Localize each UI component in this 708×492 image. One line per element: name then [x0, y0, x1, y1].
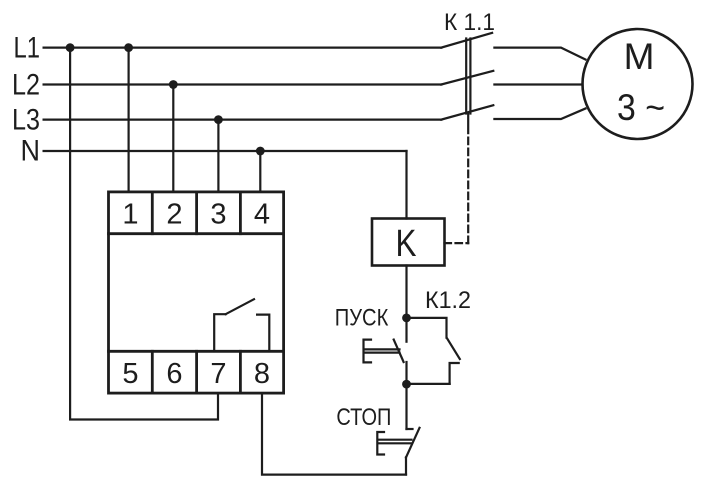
svg-text:5: 5: [122, 358, 138, 390]
wire L1: [44, 46, 442, 48]
wire N: [44, 150, 407, 152]
svg-text:L2: L2: [12, 69, 40, 102]
stop button SB2 (NC): [377, 384, 419, 474]
wire coil K to start node: [405, 266, 407, 318]
wire phase2 to motor: [494, 83, 582, 85]
dashed mechanical link from coil: [445, 242, 469, 244]
svg-text:ПУСК: ПУСК: [335, 305, 389, 332]
svg-text:8: 8: [254, 358, 270, 390]
svg-text:N: N: [21, 135, 41, 168]
motor M: [583, 29, 693, 139]
wire L2: [44, 83, 442, 85]
svg-text:К1.2: К1.2: [425, 287, 471, 314]
node on N to terminal 4: [256, 147, 265, 156]
auxiliary contact K1.2: [407, 318, 460, 384]
coil K box: [372, 219, 445, 266]
wire N to terminal 4: [259, 151, 261, 192]
wire terminal 8 to stop button bottom: [262, 393, 406, 475]
svg-text:7: 7: [210, 358, 226, 390]
node start-top: [402, 314, 411, 323]
wire phase1 to motor: [494, 48, 585, 60]
contactor blade phase 2: [441, 71, 493, 85]
svg-text:M: M: [624, 36, 655, 77]
svg-text:2: 2: [166, 199, 182, 231]
svg-text:K: K: [396, 223, 417, 265]
wire phase3 to motor: [494, 109, 585, 120]
svg-text:4: 4: [254, 199, 270, 231]
node start-bottom: [402, 380, 411, 389]
node on L2 to terminal 2: [169, 80, 178, 89]
svg-text:6: 6: [166, 358, 182, 390]
dashed mechanical link vertical: [467, 124, 469, 243]
contactor blade phase 1: [441, 33, 492, 48]
node on L3 to terminal 3: [214, 115, 223, 124]
node on L1 to terminal 1: [124, 43, 133, 52]
svg-text:L1: L1: [14, 32, 41, 65]
wire L3 to terminal 3: [217, 120, 219, 192]
wire L3: [44, 118, 442, 120]
wire L1 down-left loop: [70, 48, 218, 420]
svg-text:3 ~: 3 ~: [617, 87, 665, 128]
start button SB1 (NO): [364, 318, 407, 384]
svg-text:1: 1: [122, 199, 138, 231]
svg-text:3: 3: [210, 199, 226, 231]
internal relay contact of U1: [214, 299, 269, 351]
contactor K1.1 bars: [466, 39, 470, 125]
svg-text:L3: L3: [12, 104, 40, 137]
svg-text:К 1.1: К 1.1: [444, 9, 495, 36]
relay device box U1: [109, 192, 284, 393]
wire L2 to terminal 2: [172, 85, 174, 192]
wire L1 to terminal 1: [128, 48, 130, 192]
node on L1 to stop-loop: [66, 43, 75, 52]
wire N to coil K: [405, 151, 407, 219]
contactor blade phase 3: [441, 105, 493, 119]
svg-text:СТОП: СТОП: [336, 404, 391, 431]
